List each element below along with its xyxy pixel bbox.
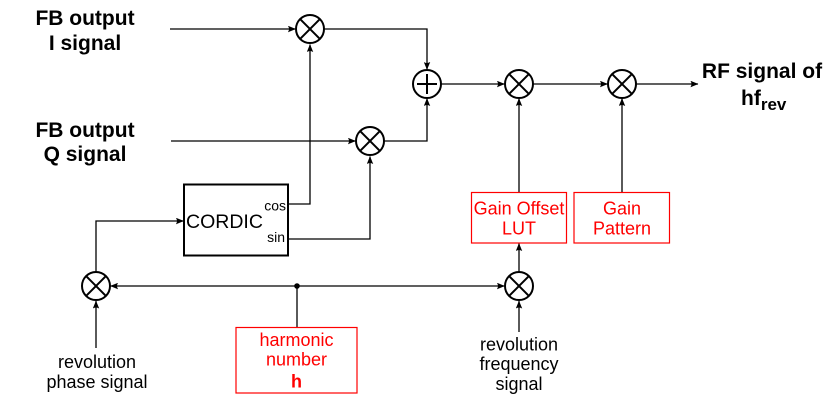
svg-text:Q signal: Q signal <box>44 143 127 166</box>
svg-text:FB output: FB output <box>35 119 134 142</box>
svg-text:harmonic: harmonic <box>259 330 333 350</box>
multiplier M1 (I) <box>296 15 324 43</box>
svg-text:Pattern: Pattern <box>593 219 651 239</box>
multiplier M3 <box>505 70 533 98</box>
wire: revolution frequency signal up to M5 <box>518 301 520 332</box>
box: Gain Pattern <box>574 193 670 244</box>
wire: M5 up to Gain Offset LUT <box>518 244 520 273</box>
svg-text:revolution: revolution <box>480 335 558 355</box>
label: RF signal of hf_rev <box>702 60 823 114</box>
svg-text:signal: signal <box>495 374 542 394</box>
svg-text:phase signal: phase signal <box>46 372 147 392</box>
svg-text:Gain Offset: Gain Offset <box>474 199 565 219</box>
wire: M3 out to M4 <box>533 83 608 85</box>
wire: revolution phase signal up to M6 <box>95 301 97 348</box>
svg-text:revolution: revolution <box>58 352 136 372</box>
wire: Gain Pattern up to M4 <box>621 99 623 193</box>
label: revolution phase signal <box>46 352 147 392</box>
wire: M6 out to CORDIC input <box>96 221 184 272</box>
junction node <box>294 283 300 289</box>
svg-text:number: number <box>266 350 327 370</box>
box: Gain Offset LUT <box>472 193 567 244</box>
multiplier M6 (phase) <box>82 272 110 300</box>
box: harmonic number h <box>236 328 357 394</box>
wire: cos to M1 <box>288 45 310 205</box>
multiplier M4 <box>608 70 636 98</box>
svg-text:FB output: FB output <box>35 7 134 30</box>
svg-text:RF signal of: RF signal of <box>702 60 823 83</box>
label: FB output I signal <box>35 7 134 55</box>
CORDIC box <box>184 185 288 256</box>
wire: harmonic line left to M6 <box>111 285 298 287</box>
label: revolution frequency signal <box>479 335 558 395</box>
svg-text:I signal: I signal <box>49 32 121 55</box>
svg-text:frequency: frequency <box>479 354 558 374</box>
wire: M2 out to adder bottom <box>384 99 427 142</box>
svg-text:LUT: LUT <box>502 219 536 239</box>
svg-text:CORDIC: CORDIC <box>186 211 263 233</box>
svg-text:sin: sin <box>267 229 285 245</box>
adder A1 <box>413 70 441 98</box>
label: FB output Q signal <box>35 119 134 166</box>
svg-text:Gain: Gain <box>603 199 641 219</box>
wire: sin to M2 <box>288 157 370 240</box>
svg-text:h: h <box>291 372 302 392</box>
wire: I input <box>170 28 296 30</box>
svg-text:cos: cos <box>264 198 286 214</box>
wire: M1 out to adder top <box>324 29 427 70</box>
wire: Q input <box>171 140 356 142</box>
multiplier M5 (frequency) <box>505 272 533 300</box>
wire: M4 out to RF label <box>636 83 698 85</box>
wire: Gain Offset LUT up to M3 <box>518 99 520 193</box>
wire: harmonic line right to M5 <box>297 285 505 287</box>
wire: adder out to M3 <box>441 83 505 85</box>
wire: junction down to harmonic box <box>296 286 298 327</box>
multiplier M2 (Q) <box>356 127 384 155</box>
